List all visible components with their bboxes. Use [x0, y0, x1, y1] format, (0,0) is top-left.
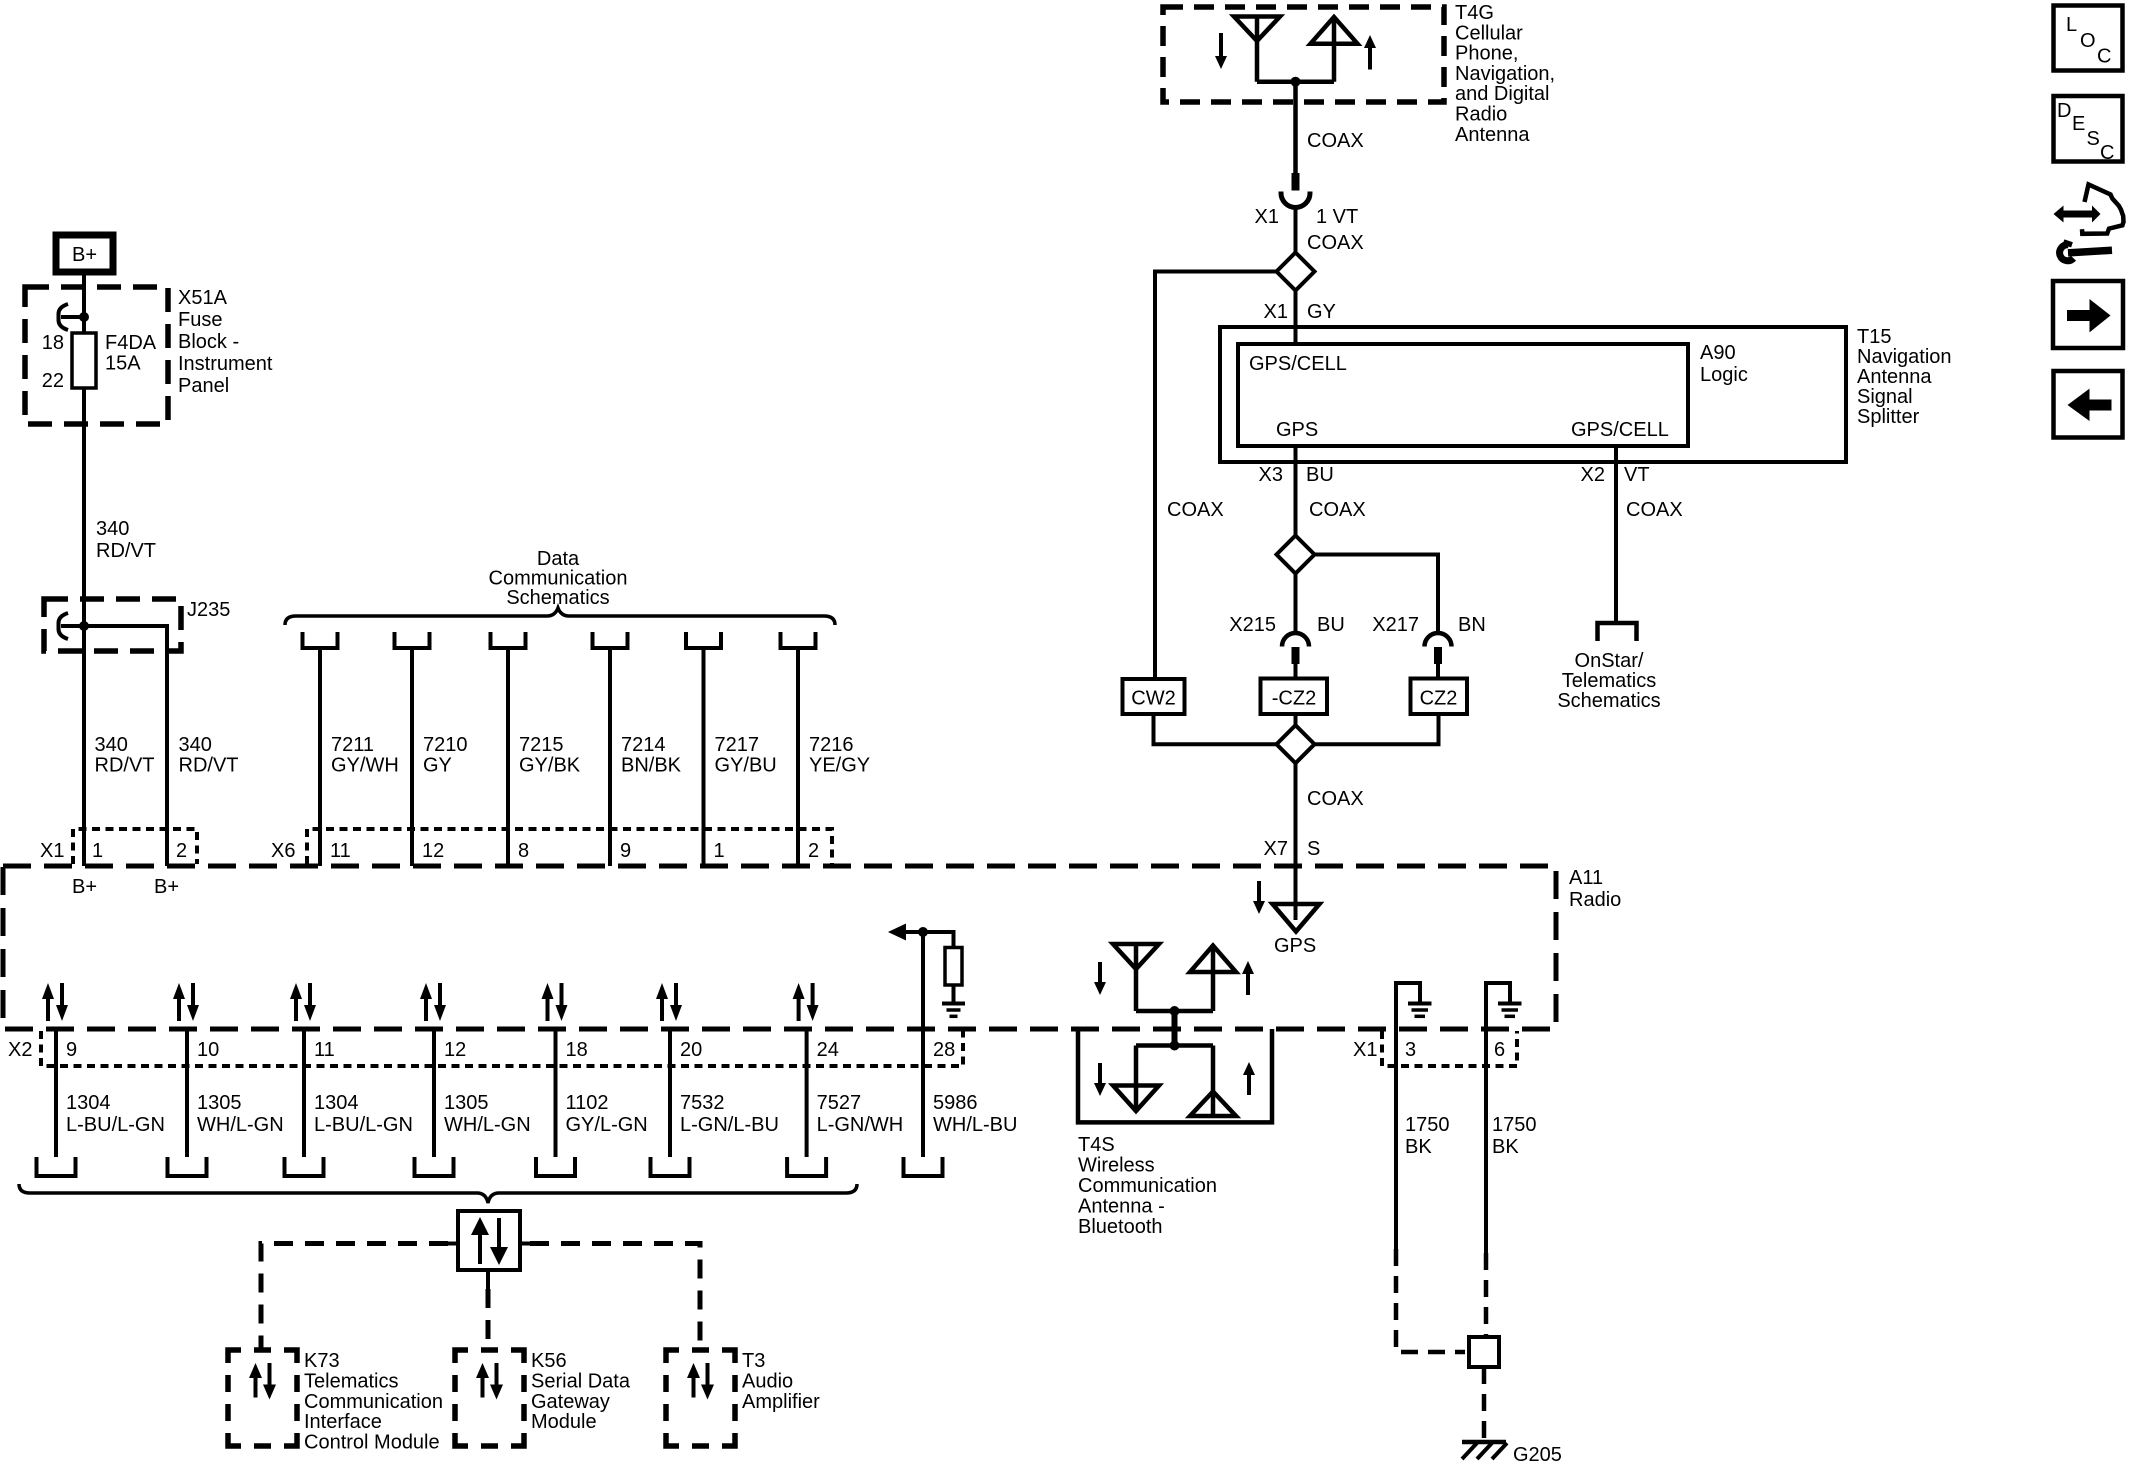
terminal (off-page) for wire 1304	[285, 1157, 324, 1176]
svg-text:Phone,: Phone,	[1455, 43, 1518, 65]
terminal (off-page) for wire 1102	[536, 1157, 575, 1176]
svg-text:COAX: COAX	[1307, 788, 1364, 810]
terminal (off-page) for wire 5986	[904, 1157, 943, 1176]
antenna elements above radio edge (T4S upper)	[1113, 944, 1159, 969]
off-page connector to OnStar/Telematics schematics	[1598, 623, 1637, 641]
bus stub left of junction box	[448, 1242, 458, 1246]
svg-text:Antenna: Antenna	[1455, 124, 1530, 146]
svg-text:Instrument: Instrument	[178, 353, 273, 375]
bidirectional signal arrows inside radio above pin X2-11	[294, 998, 298, 1021]
wire GPS/CELL output coax to OnStar	[1614, 446, 1618, 623]
wire coax to splitter	[1294, 208, 1298, 253]
bidirectional arrows inside K56	[481, 1377, 485, 1398]
connector row X2 of radio A11	[41, 1031, 963, 1066]
svg-text:L-GN/L-BU: L-GN/L-BU	[680, 1114, 779, 1136]
icon box LOC	[2054, 6, 2123, 71]
inline connector X215 (female socket)	[1282, 633, 1309, 647]
svg-text:Fuse: Fuse	[178, 309, 222, 331]
wire -CZ2 to junction diamond	[1294, 714, 1298, 726]
svg-text:GPS/CELL: GPS/CELL	[1571, 419, 1669, 441]
svg-text:Panel: Panel	[178, 375, 229, 397]
svg-text:1305: 1305	[197, 1092, 242, 1114]
svg-text:Splitter: Splitter	[1857, 406, 1920, 428]
bidirectional signal arrows inside radio above pin X2-20	[660, 998, 664, 1021]
svg-text:Navigation,: Navigation,	[1455, 63, 1555, 85]
svg-text:COAX: COAX	[1626, 499, 1683, 521]
GPS antenna input symbol inside radio	[1273, 904, 1320, 932]
svg-text:18: 18	[566, 1039, 588, 1061]
module T15 Navigation Antenna Signal Splitter box	[1220, 327, 1846, 462]
icon box back arrow	[2054, 371, 2123, 438]
svg-text:X2: X2	[8, 1039, 32, 1061]
svg-text:9: 9	[620, 840, 631, 862]
svg-text:1: 1	[714, 840, 725, 862]
wire X217 to CZ2	[1436, 664, 1440, 679]
wire 7216 YE/GY to radio pin X6-2	[796, 648, 800, 866]
icon connector-repair (car outline with double arrow and wrench)	[2082, 185, 2124, 234]
svg-text:T4S: T4S	[1078, 1134, 1115, 1156]
bidirectional arrows inside T3	[692, 1377, 696, 1398]
junction dot T4S lower	[1170, 1041, 1180, 1051]
wire X215 to -CZ2	[1294, 664, 1298, 679]
inline coax connector X1 (female socket)	[1281, 192, 1310, 208]
option code box CZ2	[1411, 679, 1468, 715]
svg-text:CW2: CW2	[1131, 688, 1175, 710]
down arrow in T4G	[1219, 33, 1223, 57]
wire 7215 GY/BK to radio pin X6-8	[506, 648, 510, 866]
svg-text:GPS/CELL: GPS/CELL	[1249, 353, 1347, 375]
svg-text:T4G: T4G	[1455, 2, 1494, 24]
svg-text:L-BU/L-GN: L-BU/L-GN	[314, 1114, 413, 1136]
dashed bus wire to T3	[530, 1244, 700, 1351]
svg-text:X215: X215	[1229, 614, 1276, 636]
svg-text:1305: 1305	[444, 1092, 489, 1114]
terminal (off-page) for wire 7215	[491, 632, 526, 648]
svg-text:C: C	[2100, 142, 2114, 164]
svg-text:COAX: COAX	[1309, 499, 1366, 521]
svg-text:GY/WH: GY/WH	[331, 755, 399, 777]
splice/clip symbol at fuse input pin 18	[59, 304, 69, 330]
connector row X1 of radio A11 (pins 1,2)	[73, 829, 197, 864]
svg-text:BK: BK	[1492, 1136, 1519, 1158]
svg-text:B+: B+	[154, 876, 179, 898]
svg-text:20: 20	[680, 1039, 702, 1061]
svg-text:L: L	[2066, 14, 2077, 36]
wire 7217 GY/BU to radio pin X6-1	[702, 648, 706, 866]
terminal (off-page) for wire 1305	[415, 1157, 454, 1176]
inline connector X217 (female socket)	[1425, 633, 1452, 647]
bidirectional signal arrows inside radio above pin X2-24	[797, 998, 801, 1021]
serial data bus junction box with arrows	[458, 1211, 520, 1270]
wire CW2 to junction diamond	[1154, 714, 1277, 744]
svg-text:GY: GY	[423, 755, 452, 777]
up arrow at T4S upper	[1246, 973, 1250, 995]
dashed bus wire to K56	[486, 1289, 491, 1350]
svg-text:7216: 7216	[809, 734, 854, 756]
svg-text:1304: 1304	[314, 1092, 359, 1114]
svg-text:1 VT: 1 VT	[1316, 206, 1358, 228]
svg-text:6: 6	[1494, 1039, 1505, 1061]
icon box forward arrow	[2053, 281, 2123, 348]
terminal (off-page) for wire 7210	[395, 632, 430, 648]
splice J235 dashed box	[44, 599, 181, 651]
svg-text:S: S	[2087, 128, 2100, 150]
module T3 dashed box	[666, 1350, 679, 1363]
svg-text:Control Module: Control Module	[304, 1432, 440, 1454]
svg-text:O: O	[2080, 30, 2096, 52]
svg-text:X1: X1	[40, 840, 64, 862]
bidirectional signal arrows inside radio above pin X2-18	[546, 998, 550, 1021]
svg-text:BU: BU	[1317, 614, 1345, 636]
svg-text:18: 18	[42, 332, 64, 354]
svg-text:7527: 7527	[817, 1092, 862, 1114]
module K56 dashed box	[455, 1350, 468, 1363]
wire B+ to fuse F4DA	[82, 272, 86, 333]
svg-text:12: 12	[422, 840, 444, 862]
option code box -CZ2	[1261, 679, 1328, 715]
svg-text:BU: BU	[1306, 464, 1334, 486]
connector row X6 of radio A11 (pins 11,12,8,9,1,2)	[307, 829, 832, 864]
svg-text:3: 3	[1405, 1039, 1416, 1061]
svg-text:24: 24	[817, 1039, 839, 1061]
svg-text:22: 22	[42, 370, 64, 392]
down arrow at T4S upper	[1098, 962, 1102, 983]
coax branch wire to CW2	[1155, 272, 1277, 680]
svg-text:D: D	[2057, 100, 2071, 122]
down arrow inside T4S	[1098, 1063, 1102, 1084]
logic block A90 inside splitter	[1238, 344, 1688, 446]
svg-text:WH/L-GN: WH/L-GN	[444, 1114, 531, 1136]
svg-text:J235: J235	[187, 599, 230, 621]
svg-text:2: 2	[176, 840, 187, 862]
svg-text:8: 8	[518, 840, 529, 862]
coax branch to connector X217	[1315, 555, 1439, 635]
up arrow in T4G	[1368, 47, 1372, 70]
svg-text:GPS: GPS	[1274, 935, 1316, 957]
dashed wire pin 6 to ground splice	[1484, 1253, 1489, 1337]
svg-text:WH/L-GN: WH/L-GN	[197, 1114, 284, 1136]
svg-text:X1: X1	[1255, 206, 1279, 228]
svg-text:7210: 7210	[423, 734, 468, 756]
svg-text:Logic: Logic	[1700, 364, 1748, 386]
terminal (off-page) for wire 7217	[686, 632, 721, 648]
inline connector X215 (male pin)	[1292, 647, 1300, 664]
svg-text:1102: 1102	[566, 1092, 609, 1114]
splice diamond (coax junction)	[1277, 253, 1315, 291]
svg-text:Cellular: Cellular	[1455, 22, 1523, 44]
svg-text:X1: X1	[1264, 301, 1288, 323]
svg-text:Telematics: Telematics	[1562, 670, 1656, 692]
svg-text:GY: GY	[1307, 301, 1336, 323]
wire resistor to signal ground	[952, 985, 956, 1002]
svg-text:K56: K56	[531, 1350, 567, 1372]
svg-text:7214: 7214	[621, 734, 666, 756]
svg-text:G205: G205	[1513, 1444, 1562, 1466]
svg-text:YE/GY: YE/GY	[809, 755, 870, 777]
svg-text:X3: X3	[1259, 464, 1283, 486]
svg-text:7217: 7217	[715, 734, 760, 756]
svg-text:T3: T3	[742, 1350, 765, 1372]
signal arrow (to left) at radio internal node for pin X2-28	[906, 930, 923, 934]
svg-text:WH/L-BU: WH/L-BU	[933, 1114, 1017, 1136]
svg-text:11: 11	[314, 1039, 335, 1061]
terminal (off-page) for wire 7532	[651, 1157, 690, 1176]
bidirectional signal arrows inside radio above pin X2-12	[424, 998, 428, 1021]
svg-text:11: 11	[330, 840, 351, 862]
svg-text:COAX: COAX	[1167, 499, 1224, 521]
wire 1305 WH/L-GN from radio pin X2-12	[432, 1029, 436, 1157]
svg-text:L-BU/L-GN: L-BU/L-GN	[66, 1114, 165, 1136]
module T4S Wireless Communication Antenna - Bluetooth box	[1078, 1029, 1272, 1122]
svg-text:1750: 1750	[1492, 1114, 1537, 1136]
svg-text:B+: B+	[72, 244, 97, 266]
splice diamond (coax junction to radio)	[1277, 725, 1315, 763]
svg-text:S: S	[1307, 838, 1320, 860]
module A11 Radio dashed outline	[3, 866, 1556, 1029]
svg-text:GPS: GPS	[1276, 419, 1318, 441]
svg-text:Radio: Radio	[1455, 104, 1507, 126]
splice clip symbol J235	[59, 613, 69, 639]
svg-text:X217: X217	[1372, 614, 1419, 636]
bus stub right of junction box	[520, 1242, 530, 1246]
terminal (off-page) for wire 1304	[37, 1157, 76, 1176]
fuse F4DA 15A	[72, 333, 96, 388]
wire joining T4G antenna elements	[1257, 79, 1334, 84]
svg-text:Schematics: Schematics	[1557, 690, 1660, 712]
svg-text:340: 340	[179, 734, 212, 756]
svg-text:A90: A90	[1700, 342, 1736, 364]
svg-text:F4DA: F4DA	[105, 332, 157, 354]
svg-text:OnStar/: OnStar/	[1575, 650, 1644, 672]
svg-text:7532: 7532	[680, 1092, 725, 1114]
dashed wire pin 3 to ground splice	[1396, 1249, 1465, 1352]
terminal (off-page) for wire 7211	[303, 632, 338, 648]
svg-text:BN/BK: BN/BK	[621, 755, 682, 777]
wire branch from J235 to radio pin X1-2	[84, 626, 167, 866]
svg-text:7215: 7215	[519, 734, 564, 756]
chassis ground symbol inside radio at pin X1-6	[1486, 983, 1510, 1029]
svg-text:RD/VT: RD/VT	[179, 755, 239, 777]
svg-text:Gateway: Gateway	[531, 1391, 610, 1413]
svg-text:GY/L-GN: GY/L-GN	[566, 1114, 648, 1136]
terminal (off-page) for wire 1305	[168, 1157, 207, 1176]
wire GPS output coax	[1294, 446, 1298, 536]
terminal (off-page) for wire 7214	[593, 632, 628, 648]
svg-text:B+: B+	[72, 876, 97, 898]
wire 1304 L-BU/L-GN from radio pin X2-11	[302, 1029, 306, 1157]
inline coax connector X1 (male pin)	[1292, 173, 1300, 191]
junction dot pin 18	[79, 312, 89, 322]
connector row X1 (pins 3,6) of radio A11	[1382, 1031, 1517, 1066]
svg-text:Radio: Radio	[1569, 889, 1621, 911]
svg-text:1304: 1304	[66, 1092, 111, 1114]
wire 1305 WH/L-GN from radio pin X2-10	[185, 1029, 189, 1157]
wire 7214 BN/BK to radio pin X6-9	[608, 648, 612, 866]
svg-text:COAX: COAX	[1307, 232, 1364, 254]
svg-text:1: 1	[92, 840, 103, 862]
chassis ground symbol inside radio at pin X1-3	[1396, 983, 1420, 1029]
svg-text:Navigation: Navigation	[1857, 346, 1952, 368]
svg-text:Bluetooth: Bluetooth	[1078, 1216, 1163, 1238]
svg-text:VT: VT	[1624, 464, 1650, 486]
bidirectional arrows inside K73	[254, 1377, 258, 1398]
svg-text:GY/BK: GY/BK	[519, 755, 581, 777]
svg-text:1750: 1750	[1405, 1114, 1450, 1136]
brace over data communication wires	[285, 608, 835, 625]
coax wire from T4G antenna	[1293, 82, 1298, 174]
svg-text:X51A: X51A	[178, 287, 228, 309]
wire 7211 GY/WH to radio pin X6-11	[318, 648, 322, 866]
signal ground symbol inside radio	[942, 1002, 965, 1006]
junction dot at pin X2-28 node	[918, 927, 928, 937]
svg-text:and Digital: and Digital	[1455, 83, 1550, 105]
svg-text:340: 340	[95, 734, 128, 756]
svg-text:X2: X2	[1581, 464, 1605, 486]
connector X51A fuse block dashed box	[25, 287, 168, 424]
bidirectional signal arrows inside radio above pin X2-10	[177, 998, 181, 1021]
svg-text:L-GN/WH: L-GN/WH	[817, 1114, 904, 1136]
coax wire to radio pin X7	[1294, 763, 1298, 920]
svg-text:C: C	[2097, 46, 2111, 68]
dashed bus wire to K73	[261, 1244, 448, 1351]
svg-text:Telematics: Telematics	[304, 1370, 398, 1392]
antenna receive symbol in T4G	[1234, 17, 1280, 42]
resistor (radio internal bus termination)	[945, 948, 962, 986]
brace gathering serial data wires	[19, 1184, 857, 1203]
wire CZ2 to junction diamond	[1315, 714, 1439, 744]
terminal (off-page) for wire 7527	[787, 1157, 826, 1176]
antenna T4G Cellular Phone Navigation and Digital Radio Antenna dashed box	[1163, 7, 1444, 102]
junction dot J235	[79, 621, 89, 631]
svg-text:2: 2	[808, 840, 819, 862]
wire 1102 GY/L-GN from radio pin X2-18	[554, 1029, 558, 1157]
antenna elements inside T4S	[1136, 1043, 1213, 1048]
svg-text:Wireless: Wireless	[1078, 1155, 1155, 1177]
wire into splitter GPS/CELL input	[1294, 291, 1298, 345]
svg-text:Serial Data: Serial Data	[531, 1370, 631, 1392]
svg-text:10: 10	[197, 1039, 219, 1061]
svg-text:CZ2: CZ2	[1420, 688, 1458, 710]
ground splice box	[1469, 1337, 1499, 1367]
icon box DESC	[2054, 96, 2123, 162]
option code box CW2	[1123, 679, 1185, 714]
svg-text:Module: Module	[531, 1411, 597, 1433]
wire T4S antenna feed	[1172, 1011, 1178, 1046]
wire 7527 L-GN/WH from radio pin X2-24	[805, 1029, 809, 1157]
svg-text:15A: 15A	[105, 353, 141, 375]
svg-text:Communication: Communication	[1078, 1175, 1217, 1197]
wire 340 RD/VT from fuse to splice J235 and radio pin X1-1	[82, 388, 86, 866]
svg-text:RD/VT: RD/VT	[96, 540, 156, 562]
ground G205 symbol	[1462, 1440, 1506, 1445]
svg-text:-CZ2: -CZ2	[1272, 688, 1316, 710]
dashed wire to ground G205	[1482, 1367, 1487, 1440]
up arrow inside T4S	[1247, 1074, 1251, 1095]
module K73 dashed box	[228, 1350, 241, 1363]
svg-text:Communication: Communication	[304, 1391, 443, 1413]
junction dot T4S upper	[1170, 1006, 1180, 1016]
svg-text:X6: X6	[271, 840, 295, 862]
wire 7532 L-GN/L-BU from radio pin X2-20	[668, 1029, 672, 1157]
svg-text:BK: BK	[1405, 1136, 1432, 1158]
svg-text:5986: 5986	[933, 1092, 978, 1114]
svg-text:Antenna -: Antenna -	[1078, 1196, 1165, 1218]
svg-text:T15: T15	[1857, 326, 1891, 348]
svg-text:Audio: Audio	[742, 1370, 793, 1392]
svg-text:Signal: Signal	[1857, 386, 1913, 408]
wire to internal terminating resistor	[923, 932, 954, 948]
terminal (off-page) for wire 7216	[781, 632, 816, 648]
bidirectional signal arrows inside radio above pin X2-9	[46, 998, 50, 1021]
wire 5986 WH/L-BU from radio pin X2-28	[921, 932, 925, 1157]
down arrow at GPS input inside radio	[1257, 881, 1261, 902]
svg-text:Antenna: Antenna	[1857, 366, 1932, 388]
wire to connector X215	[1294, 574, 1298, 635]
svg-text:Amplifier: Amplifier	[742, 1391, 820, 1413]
svg-text:K73: K73	[304, 1350, 340, 1372]
svg-text:9: 9	[66, 1039, 77, 1061]
svg-text:340: 340	[96, 518, 129, 540]
junction dot in T4G	[1291, 77, 1301, 87]
svg-text:X7: X7	[1264, 838, 1288, 860]
wire 7210 GY to radio pin X6-12	[410, 648, 414, 866]
splice diamond (GPS coax junction)	[1277, 536, 1315, 574]
bus stub below junction box	[486, 1270, 490, 1289]
inline connector X217 (male pin)	[1434, 647, 1442, 664]
svg-text:12: 12	[444, 1039, 466, 1061]
svg-text:E: E	[2072, 113, 2085, 135]
svg-text:RD/VT: RD/VT	[95, 755, 155, 777]
svg-text:Interface: Interface	[304, 1411, 382, 1433]
wire 1750 BK from pin 3	[1394, 1029, 1398, 1249]
svg-text:7211: 7211	[331, 734, 374, 756]
svg-text:BN: BN	[1458, 614, 1486, 636]
wire 1304 L-BU/L-GN from radio pin X2-9	[54, 1029, 58, 1157]
svg-text:GY/BU: GY/BU	[715, 755, 777, 777]
svg-text:COAX: COAX	[1307, 130, 1364, 152]
wire 1750 BK from pin 6	[1484, 1029, 1488, 1253]
svg-text:X1: X1	[1353, 1039, 1377, 1061]
svg-text:A11: A11	[1569, 867, 1603, 889]
svg-text:28: 28	[933, 1039, 955, 1061]
svg-text:Block -: Block -	[178, 331, 239, 353]
antenna transmit symbol in T4G	[1311, 17, 1358, 44]
power symbol B+ battery feed box	[56, 235, 113, 272]
